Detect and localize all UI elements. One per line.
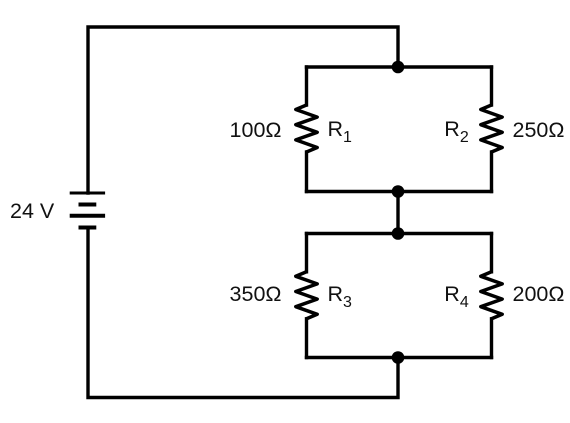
svg-text:R4: R4 [444, 282, 469, 311]
svg-text:200Ω: 200Ω [513, 282, 565, 306]
svg-text:R2: R2 [444, 117, 469, 146]
svg-text:350Ω: 350Ω [230, 282, 282, 306]
svg-text:R1: R1 [328, 117, 353, 146]
svg-text:24 V: 24 V [10, 199, 55, 223]
svg-text:250Ω: 250Ω [513, 118, 565, 142]
svg-text:100Ω: 100Ω [230, 118, 282, 142]
svg-text:R3: R3 [328, 282, 353, 311]
